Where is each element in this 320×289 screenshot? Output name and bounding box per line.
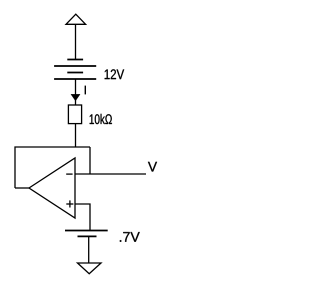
current direction arrow I xyxy=(71,94,80,101)
ground xyxy=(78,263,102,274)
wire feedback top rail xyxy=(15,147,90,188)
op-amp U1 xyxy=(29,158,75,218)
label 12V xyxy=(105,69,124,79)
wire xyxy=(75,79,77,105)
label I xyxy=(84,86,86,95)
label .7V xyxy=(120,232,140,242)
wire xyxy=(75,124,77,147)
resistor R1 xyxy=(68,105,81,124)
wire feedback down xyxy=(89,147,91,174)
battery V1 12V xyxy=(54,60,96,80)
label V xyxy=(148,162,157,172)
wire inverting input to node V xyxy=(75,173,146,175)
power supply arrow xyxy=(66,14,86,24)
inverting input minus sign xyxy=(66,173,72,175)
wire xyxy=(75,24,77,59)
wire to op-amp output xyxy=(15,187,29,189)
wire xyxy=(88,236,90,263)
label 10kOhm xyxy=(90,114,112,124)
non-inverting input plus sign xyxy=(66,200,73,207)
wire non-inverting input xyxy=(75,204,90,231)
battery V2 0.7V xyxy=(65,231,108,237)
